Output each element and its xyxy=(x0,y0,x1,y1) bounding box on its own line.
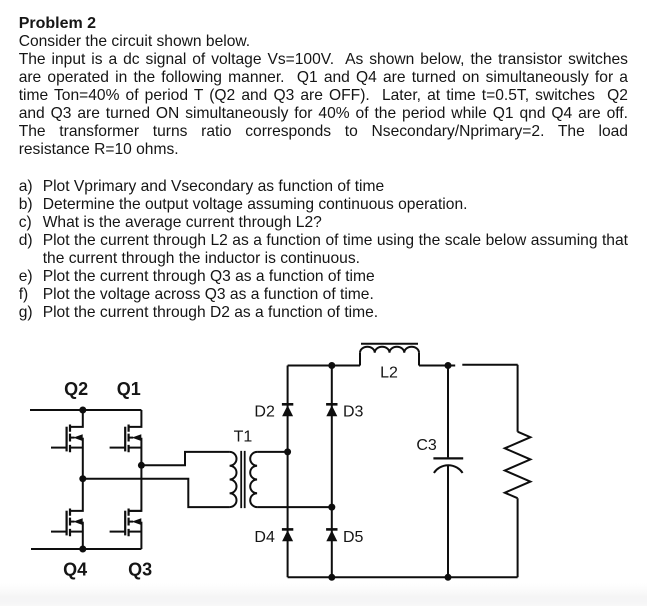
svg-text:D4: D4 xyxy=(254,529,275,546)
node: bridge mid-left junction xyxy=(79,475,86,482)
wire: secondary bottom to rectifier xyxy=(257,506,332,508)
node: bridge bottom junction xyxy=(79,546,86,553)
transistor Q1 xyxy=(110,410,142,511)
wire: bridge bottom rail xyxy=(31,548,141,550)
label D2 xyxy=(254,403,275,420)
wire: bridge to transformer primary top xyxy=(141,452,229,465)
node: secondary top junction xyxy=(284,448,291,455)
capacitor C3 xyxy=(433,366,463,578)
label Q1 xyxy=(117,379,141,399)
label Q3 xyxy=(128,559,152,579)
svg-text:Q2: Q2 xyxy=(64,379,88,399)
bottom gray band xyxy=(0,583,647,606)
wire: rectifier bottom rail xyxy=(288,576,518,578)
wire: rectifier right rail (D3/D5) xyxy=(331,366,333,578)
label Q2 xyxy=(64,379,88,399)
transformer T1 primary winding xyxy=(230,452,237,507)
label Q4 xyxy=(63,559,87,579)
wire: rectifier top rail xyxy=(288,364,518,367)
svg-text:C3: C3 xyxy=(416,437,437,454)
label T1 xyxy=(234,429,253,446)
node: top rail / C3 junction xyxy=(445,362,452,369)
transformer T1 secondary winding xyxy=(250,452,257,507)
transistor Q3 xyxy=(110,509,142,550)
svg-text:Q3: Q3 xyxy=(128,559,152,579)
wire: bridge top rail xyxy=(30,409,141,411)
label D3 xyxy=(343,403,364,420)
node: bridge mid-right junction xyxy=(138,462,145,469)
label L2 xyxy=(380,365,398,382)
wire: rectifier left rail xyxy=(287,366,289,578)
node: secondary bottom junction xyxy=(328,504,335,511)
inductor L2 xyxy=(360,344,419,366)
svg-text:Q1: Q1 xyxy=(117,379,141,399)
svg-text:D5: D5 xyxy=(343,529,364,546)
wire: bridge to transformer primary bottom xyxy=(83,479,230,507)
wire: secondary top to rectifier xyxy=(257,451,288,453)
svg-text:D2: D2 xyxy=(254,403,275,420)
resistor R (load) xyxy=(505,365,531,578)
node: bridge top junction xyxy=(79,407,86,414)
label C3 xyxy=(416,437,437,454)
diode D5 xyxy=(326,529,337,541)
transistor Q2 xyxy=(51,410,83,479)
diode D4 xyxy=(282,529,293,541)
svg-text:D3: D3 xyxy=(343,403,364,420)
svg-text:L2: L2 xyxy=(380,365,398,382)
diode D2 xyxy=(282,404,293,416)
diode D3 xyxy=(326,404,337,416)
node: bottom rail / D5 rail junction xyxy=(328,574,335,581)
transistor Q4 xyxy=(51,479,83,549)
svg-text:Q4: Q4 xyxy=(63,559,87,579)
label D5 xyxy=(343,529,364,546)
svg-text:T1: T1 xyxy=(234,429,253,446)
node: bottom rail / C3 junction xyxy=(445,574,452,581)
transformer T1 core xyxy=(241,451,245,508)
node: top rail / L2 left junction xyxy=(328,362,335,369)
label D4 xyxy=(254,529,275,546)
